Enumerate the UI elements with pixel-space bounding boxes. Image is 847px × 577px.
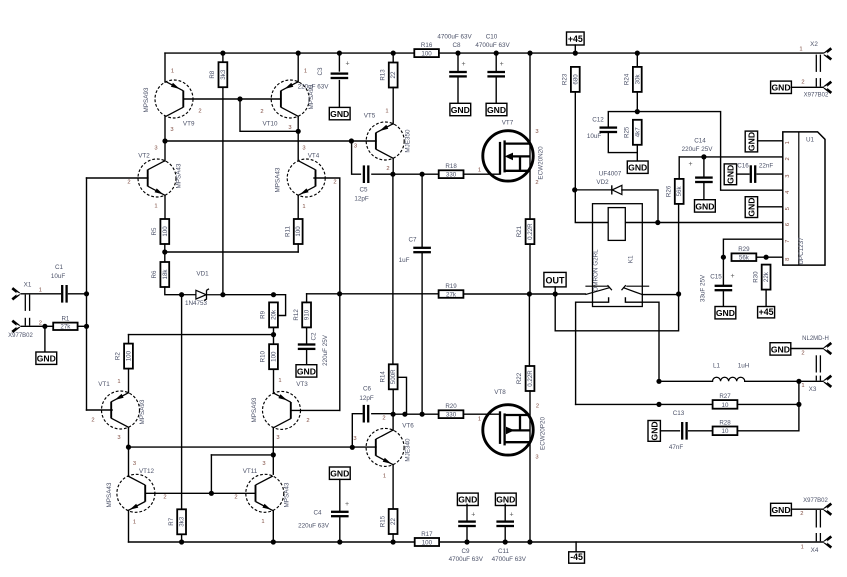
- wire node to VT2 collector: [164, 141, 166, 161]
- svg-text:MJE350: MJE350: [405, 129, 412, 153]
- wire R14 trimmer tap: [398, 377, 407, 414]
- node top rail R24: [635, 51, 640, 56]
- svg-text:+: +: [509, 512, 513, 519]
- resistor R12 910: [293, 302, 311, 327]
- wire R15 to bottom rail: [392, 534, 394, 542]
- svg-text:C3: C3: [317, 67, 324, 76]
- svg-text:330: 330: [446, 412, 457, 419]
- ground GND R25/C12: [627, 161, 648, 173]
- svg-text:100: 100: [162, 226, 169, 237]
- power +45 right flag: [758, 307, 775, 318]
- svg-text:GND: GND: [451, 105, 470, 115]
- svg-text:3: 3: [170, 127, 173, 133]
- svg-text:3: 3: [302, 146, 305, 152]
- svg-text:C5: C5: [359, 187, 368, 194]
- node relay coil / VD2 / U1 pin6: [655, 220, 660, 225]
- resistor R16 100: [414, 42, 439, 58]
- svg-text:C11: C11: [498, 548, 510, 555]
- wire VT3 emitter down: [272, 428, 274, 455]
- node output column / R19: [527, 291, 532, 296]
- svg-text:10: 10: [722, 428, 729, 435]
- wire R29 to R30 node: [756, 256, 766, 258]
- transistor VT1 MPSA93 PNP: [102, 391, 140, 429]
- node X1 pin2 junction: [42, 324, 47, 329]
- wire OUT to relay contact left: [555, 293, 585, 295]
- svg-text:+: +: [688, 161, 692, 168]
- node bottom rail R15: [391, 539, 396, 544]
- ground GND C9: [457, 493, 478, 505]
- wire R10 to VT3 collector: [273, 369, 275, 393]
- svg-text:3: 3: [117, 435, 120, 441]
- svg-text:VT4: VT4: [308, 152, 320, 159]
- svg-text:R29: R29: [738, 246, 750, 253]
- svg-text:C10: C10: [486, 34, 498, 41]
- node C7 top junction: [420, 172, 425, 177]
- svg-text:MPSA43: MPSA43: [106, 482, 113, 507]
- wire relay contact right to R26 node: [642, 294, 678, 296]
- resistor R18 330: [439, 163, 464, 179]
- wire -45 bottom rail right segment to X4: [439, 541, 824, 543]
- wire VT4 emitter to R11: [297, 195, 299, 219]
- svg-text:1uH: 1uH: [738, 362, 750, 369]
- capacitor C15 33uF 25V: [715, 285, 733, 292]
- svg-text:ECW20N20: ECW20N20: [538, 146, 545, 180]
- svg-text:X4: X4: [811, 547, 819, 554]
- flag OUT label: [544, 272, 566, 287]
- svg-text:3: 3: [535, 129, 538, 135]
- svg-text:1: 1: [171, 68, 174, 74]
- diode VD2 UF4007: [575, 170, 622, 194]
- svg-text:R11: R11: [284, 226, 291, 237]
- node top rail C3: [337, 51, 342, 56]
- wire to VT2 base: [87, 177, 148, 179]
- wire C7 node down: [421, 174, 423, 246]
- svg-text:3: 3: [354, 144, 357, 150]
- resistor R30 22k: [752, 265, 770, 290]
- wire +45 flag to rail: [574, 45, 576, 53]
- node VT12/VT11 base junction: [209, 491, 214, 496]
- svg-text:22nF: 22nF: [759, 163, 774, 170]
- node C7 bottom: [420, 412, 425, 417]
- wire coil right to node: [625, 222, 658, 224]
- node feedback junction VT4 base column: [337, 291, 342, 296]
- node bottom rail C9: [464, 539, 469, 544]
- svg-text:R6: R6: [151, 270, 158, 278]
- wire R22 to VT8 and bottom rail: [529, 391, 531, 542]
- svg-text:220uF 25V: 220uF 25V: [322, 334, 329, 366]
- svg-text:0.22R: 0.22R: [527, 223, 534, 240]
- svg-text:R10: R10: [260, 350, 267, 362]
- wire C5 to VT5 emitter node: [372, 173, 393, 175]
- wire R20 to VT8 gate: [464, 413, 501, 415]
- wire X4 pin2 ground: [791, 508, 823, 510]
- svg-text:R13: R13: [379, 69, 386, 81]
- wire rail to C8: [457, 53, 459, 70]
- wire C2 to ground: [306, 351, 308, 365]
- svg-text:1: 1: [117, 379, 120, 385]
- svg-text:2: 2: [234, 495, 237, 501]
- svg-text:R5: R5: [151, 227, 158, 235]
- svg-text:MPSA93: MPSA93: [251, 397, 258, 422]
- svg-text:R18: R18: [445, 163, 457, 170]
- wire ground to C16: [737, 173, 749, 175]
- svg-text:MJE340: MJE340: [405, 438, 412, 462]
- svg-text:27k: 27k: [60, 324, 71, 331]
- svg-text:8: 8: [785, 258, 791, 261]
- capacitor C3 220uF 63V: [331, 72, 349, 79]
- svg-text:2: 2: [382, 416, 385, 422]
- svg-text:4700uF 63V: 4700uF 63V: [437, 34, 472, 41]
- svg-text:22: 22: [390, 71, 397, 78]
- ground GND X3 pin2: [770, 343, 791, 355]
- wire node to mirror base link: [211, 454, 273, 456]
- wire VT4 base to feedback node: [314, 178, 340, 294]
- resistor R1 27k: [53, 315, 77, 330]
- wire VT11 emitter to bottom rail: [272, 511, 274, 543]
- resistor R22 0.22R: [516, 366, 534, 391]
- svg-text:MPSA93: MPSA93: [139, 399, 146, 424]
- capacitor C14 220uF 25V: [695, 176, 713, 183]
- node bottom rail C4: [337, 539, 342, 544]
- wire VT5 emitter column down to R14: [392, 174, 394, 364]
- wire VT12 emitter to bottom rail: [128, 511, 130, 543]
- connector X3 speaker NL2MD-H: [801, 336, 831, 393]
- resistor R7 3k3: [168, 509, 186, 534]
- svg-text:27k: 27k: [446, 291, 457, 298]
- resistor R27 10: [713, 393, 738, 409]
- wire C12 bottom to R25 bottom: [608, 134, 637, 153]
- wire X1 pin1 to C1: [21, 293, 60, 295]
- connector X1 input jack X977B02: [8, 282, 42, 339]
- capacitor C2 220uF 25V: [298, 343, 316, 350]
- relay K1 contact left: [585, 285, 612, 294]
- power -45 flag: [569, 552, 585, 563]
- svg-text:GND: GND: [695, 201, 714, 211]
- wire relay foot row to R27: [576, 403, 713, 405]
- wire node to L1: [659, 380, 713, 382]
- wire C6 to VT6 collector node: [372, 413, 393, 415]
- ground GND C2: [296, 365, 317, 377]
- wire R13 to VT5 collector: [392, 88, 394, 125]
- svg-text:GND: GND: [771, 83, 790, 93]
- capacitor C1 10uF: [61, 285, 68, 303]
- wire VT5 emitter down: [392, 158, 394, 174]
- resistor R29 56k: [732, 246, 757, 261]
- svg-text:6: 6: [785, 223, 791, 226]
- node VT5 emitter / C5 / R14 column: [390, 172, 395, 177]
- svg-text:VT10: VT10: [262, 120, 278, 127]
- svg-text:+: +: [345, 61, 349, 68]
- svg-text:4700uF 63V: 4700uF 63V: [492, 556, 527, 563]
- resistor R20 330: [439, 403, 464, 419]
- svg-text:GND: GND: [747, 132, 757, 151]
- node R9/R10/R2 junction: [271, 332, 276, 337]
- svg-text:R28: R28: [719, 419, 731, 426]
- svg-text:NL2MD-H: NL2MD-H: [802, 336, 829, 342]
- wire X2 pin2 ground wire: [791, 86, 823, 88]
- svg-text:+45: +45: [568, 34, 583, 44]
- wire node to U1 pin8: [766, 256, 783, 258]
- svg-text:1: 1: [302, 204, 305, 210]
- svg-text:VT2: VT2: [138, 152, 150, 159]
- svg-text:1N4753: 1N4753: [185, 300, 208, 307]
- svg-text:K1: K1: [627, 255, 634, 263]
- capacitor C7 1uF: [413, 247, 431, 254]
- node X3 pin1 junction: [796, 379, 801, 384]
- svg-text:GND: GND: [37, 354, 56, 364]
- svg-text:R17: R17: [421, 531, 433, 538]
- svg-text:+: +: [471, 512, 475, 519]
- svg-text:C1: C1: [55, 264, 64, 271]
- svg-text:R22: R22: [516, 372, 523, 384]
- svg-text:10uF: 10uF: [587, 133, 602, 140]
- node top rail R13: [391, 51, 396, 56]
- svg-text:R21: R21: [516, 225, 523, 237]
- resistor R11 100: [284, 219, 302, 244]
- wire VT6 emitter to R15: [392, 465, 394, 509]
- svg-text:1: 1: [261, 519, 264, 525]
- svg-text:56k: 56k: [676, 186, 683, 197]
- svg-text:C8: C8: [452, 42, 461, 49]
- connector X2 +45 input X977B02: [799, 41, 831, 99]
- svg-text:220uF 63V: 220uF 63V: [298, 84, 330, 91]
- wire base node down to VT10 emitter node: [240, 99, 298, 131]
- svg-text:R16: R16: [421, 42, 433, 49]
- svg-text:3: 3: [154, 146, 157, 152]
- wire coil node to U1 pin6: [658, 222, 783, 224]
- svg-text:GND: GND: [628, 163, 647, 173]
- wire node row to R20: [393, 413, 439, 415]
- svg-text:VT6: VT6: [402, 423, 414, 430]
- resistor R28 10: [713, 419, 738, 435]
- svg-text:910: 910: [304, 309, 311, 320]
- wire C8 to ground: [457, 78, 459, 103]
- svg-text:2: 2: [260, 109, 263, 115]
- svg-text:GND: GND: [330, 109, 349, 119]
- wire U1 pin1 to ground: [758, 140, 783, 142]
- svg-text:100: 100: [271, 351, 278, 362]
- wire R6 to VD1 node: [165, 287, 182, 295]
- transistor VT9 MPSA93 PNP: [155, 80, 193, 118]
- capacitor C13 47nF: [681, 422, 688, 440]
- wire +45 top rail left segment: [165, 52, 414, 54]
- wire R5 to node: [164, 244, 166, 262]
- wire VT9 base to node: [184, 98, 241, 100]
- svg-text:C7: C7: [408, 236, 417, 243]
- node R24/C12/R25: [635, 109, 640, 114]
- wire OUT flag stub: [554, 287, 556, 294]
- wire junction to R1: [45, 325, 53, 327]
- node bottom rail C11: [503, 539, 508, 544]
- svg-text:1: 1: [799, 47, 802, 53]
- svg-text:C4: C4: [313, 510, 322, 517]
- svg-text:1: 1: [801, 545, 804, 551]
- svg-text:C2: C2: [311, 332, 318, 341]
- resistor R13 22: [379, 63, 397, 88]
- svg-text:-45: -45: [570, 552, 583, 562]
- wire VD2 cathode to relay coil node: [622, 190, 658, 223]
- wire node to C12: [608, 112, 637, 127]
- power +45 top flag: [567, 32, 585, 45]
- svg-text:3k3: 3k3: [220, 69, 227, 80]
- wire rail to C3: [338, 53, 340, 71]
- wire X1 pin2 to junction: [21, 325, 45, 327]
- wire ground to C4: [339, 479, 341, 510]
- svg-text:VD1: VD1: [196, 271, 209, 278]
- transistor VT11 MPSA43 NPN: [246, 474, 284, 512]
- svg-text:R27: R27: [719, 393, 731, 400]
- svg-text:+: +: [730, 273, 734, 280]
- node VT9/VT10 base junction: [237, 96, 242, 101]
- wire OUT node to R22: [528, 294, 530, 366]
- ground GND C13: [648, 421, 660, 442]
- svg-text:R19: R19: [445, 283, 457, 290]
- wire node to VT12 collector: [128, 447, 130, 476]
- node R29 right / R30 / U1 pin8: [764, 255, 769, 260]
- ground GND C3: [329, 107, 350, 119]
- svg-text:1: 1: [478, 417, 481, 423]
- svg-text:220uF 25V: 220uF 25V: [682, 146, 714, 153]
- svg-text:VT1: VT1: [98, 381, 110, 388]
- svg-text:7: 7: [785, 240, 791, 243]
- wire R18 to VT7 gate: [464, 173, 501, 175]
- svg-text:2: 2: [801, 80, 804, 86]
- svg-text:1: 1: [785, 141, 791, 144]
- capacitor C9 4700uF 63V: [458, 520, 476, 527]
- svg-text:3: 3: [133, 461, 136, 467]
- svg-text:VT11: VT11: [243, 468, 258, 475]
- svg-text:C9: C9: [461, 548, 470, 555]
- wire node down to C15: [722, 257, 724, 284]
- transistor VT10 MPSA93 PNP: [271, 80, 309, 118]
- svg-text:R14: R14: [379, 371, 386, 383]
- wire R21 to OUT node: [529, 244, 531, 294]
- svg-text:R20: R20: [445, 403, 457, 410]
- wire rail to C10: [495, 53, 497, 70]
- connector X4 -45 input X977B02: [800, 498, 831, 554]
- ground GND U1 pin1: [745, 131, 757, 152]
- node R14 tap: [402, 412, 407, 417]
- svg-text:1: 1: [801, 383, 804, 389]
- svg-text:10: 10: [722, 402, 729, 409]
- wire node to VT10 base: [240, 98, 281, 100]
- svg-text:MPSA93: MPSA93: [143, 87, 150, 112]
- node bottom rail VT8 source: [527, 539, 532, 544]
- node VT1 emitter / VT12 collector: [126, 445, 131, 450]
- wire node to R18: [422, 173, 439, 175]
- wire VT9 emitter to top rail: [164, 53, 166, 82]
- svg-text:UPC1237: UPC1237: [798, 237, 805, 265]
- wire VD2 node down to relay coil: [575, 190, 608, 223]
- svg-text:R25: R25: [624, 126, 631, 138]
- wire C11 to bottom rail: [504, 528, 506, 543]
- svg-text:30k: 30k: [634, 74, 641, 85]
- svg-text:C15: C15: [710, 273, 722, 280]
- node R29 left / C15: [721, 255, 726, 260]
- svg-text:VT7: VT7: [502, 120, 514, 127]
- svg-text:4k7: 4k7: [634, 127, 641, 138]
- resistor R19 27k: [439, 283, 464, 298]
- svg-text:3k3: 3k3: [179, 516, 186, 527]
- capacitor C8 4700uF 63V: [449, 71, 467, 78]
- wire -45 bottom rail left segment: [129, 541, 415, 543]
- svg-text:+: +: [345, 501, 349, 508]
- wire R5 node to R11: [165, 251, 298, 253]
- capacitor C4 220uF 63V: [331, 511, 349, 518]
- svg-text:1: 1: [304, 68, 307, 74]
- IC U1 pin numbers: [785, 141, 791, 261]
- svg-text:0.22R: 0.22R: [527, 370, 534, 387]
- capacitor C10 4700uF 63V: [487, 71, 505, 78]
- wire VT12 base to node: [146, 492, 212, 494]
- ground GND C4: [329, 467, 350, 479]
- svg-text:GND: GND: [716, 308, 735, 318]
- svg-text:5: 5: [785, 207, 791, 210]
- node R1/input column junction: [84, 324, 89, 329]
- inductor L1 1uH: [713, 362, 750, 381]
- svg-text:1: 1: [478, 167, 481, 173]
- transistor VT2 MPSA43 NPN: [138, 159, 176, 197]
- svg-text:UF4007: UF4007: [599, 170, 622, 177]
- node VD1 cathode / R8: [220, 292, 225, 297]
- wire C7 down to VT6 collector row: [421, 254, 423, 415]
- wire mirror rail to VT6 base: [129, 446, 377, 448]
- wire R14 to VT6 collector node: [392, 389, 394, 414]
- wire relay left contact foot to R27 row: [576, 298, 609, 405]
- transistor VT12 MPSA43 NPN: [117, 474, 155, 512]
- svg-text:220uF 63V: 220uF 63V: [298, 522, 330, 529]
- svg-text:R24: R24: [624, 73, 631, 85]
- node VT6 collector / C6: [391, 412, 396, 417]
- wire R24 node to U1 pin4: [637, 112, 783, 191]
- wire R25 to ground: [636, 145, 638, 161]
- svg-text:GND: GND: [649, 421, 659, 440]
- wire node to VT6 collector: [392, 414, 394, 430]
- resistor R5 100: [151, 219, 169, 244]
- wire mirror base link down: [210, 455, 212, 493]
- node VT6 base / C6 junction: [350, 445, 355, 450]
- wire R19 to output column: [463, 293, 529, 295]
- node R26 bottom junction: [676, 291, 681, 296]
- ground GND C8: [450, 103, 471, 115]
- wire to OUT flag node: [529, 293, 555, 295]
- svg-text:1: 1: [385, 109, 388, 115]
- svg-text:2: 2: [163, 495, 166, 501]
- ground GND input: [36, 352, 57, 364]
- svg-text:+45: +45: [759, 307, 774, 317]
- svg-text:22k: 22k: [763, 271, 770, 282]
- transistor VT7 ECW20N20 N-MOSFET: [483, 131, 533, 181]
- wire ground to C11: [504, 504, 506, 520]
- svg-text:2: 2: [333, 180, 336, 186]
- wire VT7 drain-source column: [529, 53, 531, 219]
- wire R9 to R10: [273, 327, 275, 344]
- svg-text:GND: GND: [496, 495, 515, 505]
- svg-text:330: 330: [446, 172, 457, 179]
- svg-text:4700uF 63V: 4700uF 63V: [449, 556, 484, 563]
- svg-text:X977B02: X977B02: [804, 93, 829, 99]
- relay K1 contact right: [622, 285, 650, 294]
- svg-text:2: 2: [785, 157, 791, 160]
- capacitor C16 22nF: [750, 165, 757, 183]
- svg-text:2: 2: [800, 511, 803, 517]
- wire R2 row to R9/R10 node: [129, 334, 274, 336]
- resistor R10 100: [260, 344, 278, 369]
- resistor R21 0.22R: [516, 219, 534, 244]
- wire X3 node down to R27 row: [798, 381, 800, 404]
- node top rail VT7 drain: [527, 51, 532, 56]
- svg-text:X1: X1: [24, 282, 32, 289]
